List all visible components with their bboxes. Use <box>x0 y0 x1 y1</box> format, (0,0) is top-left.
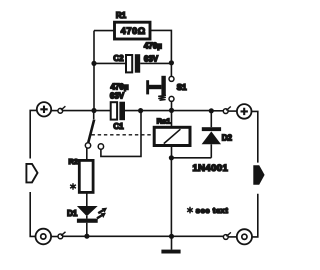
node B junction <box>169 108 174 113</box>
connector arrow right (solid) <box>253 165 264 185</box>
wire <box>30 110 37 158</box>
node ground junction <box>169 234 174 239</box>
svg-text:S1: S1 <box>177 83 187 92</box>
node C junction <box>138 108 143 113</box>
diode D2 flyback <box>210 111 212 127</box>
wire <box>86 192 88 206</box>
connector arrow left (hollow) <box>26 164 37 183</box>
wire <box>171 146 173 158</box>
wire <box>171 101 173 110</box>
asterisk near R2 <box>70 183 76 190</box>
wire <box>125 110 172 112</box>
mechanical dashed link <box>92 134 155 136</box>
node A junction <box>91 108 96 113</box>
svg-text:D1: D1 <box>67 209 78 218</box>
switch S1 pushbutton <box>169 76 174 81</box>
svg-text:D2: D2 <box>222 134 233 143</box>
wire hook contact to rail <box>101 111 141 157</box>
node D junction <box>209 108 214 113</box>
wire <box>228 110 237 112</box>
capacitor C2 <box>126 55 132 72</box>
terminal output bottom-right <box>237 229 252 244</box>
terminal output bottom-left <box>36 229 52 245</box>
node C2-left junction <box>91 61 96 66</box>
wire <box>94 30 114 32</box>
plug connector top-left <box>58 108 63 113</box>
wire <box>63 110 94 112</box>
LED arrows <box>98 210 103 213</box>
svg-text:470µ: 470µ <box>144 41 162 50</box>
svg-text:C1: C1 <box>113 122 124 131</box>
node C2-right junction <box>169 60 174 65</box>
wire <box>170 63 172 77</box>
svg-text:470µ: 470µ <box>111 82 129 91</box>
wire <box>94 62 126 64</box>
svg-text:63V: 63V <box>144 54 159 63</box>
svg-text:C2: C2 <box>113 54 124 63</box>
capacitor C1 <box>111 102 117 119</box>
svg-text:R2: R2 <box>69 157 79 166</box>
svg-text:470Ω: 470Ω <box>121 26 146 36</box>
svg-text:Re1: Re1 <box>157 117 171 126</box>
node E junction <box>169 155 174 160</box>
wire <box>172 235 224 237</box>
wire <box>211 110 223 112</box>
resistor R1 <box>115 22 151 39</box>
see text note <box>187 207 193 214</box>
resistor R2 <box>86 148 88 160</box>
svg-text:R1: R1 <box>116 11 127 20</box>
terminal + input top-left <box>37 102 51 116</box>
svg-text:see text: see text <box>196 206 229 215</box>
wire bottom rail <box>63 235 172 237</box>
wire <box>171 158 211 237</box>
wire main rail <box>94 110 111 112</box>
switch arm (relay contact) <box>93 111 95 120</box>
wire <box>30 192 35 236</box>
wire <box>51 110 58 112</box>
plug connector top-right <box>223 109 228 114</box>
plug connector bottom-right <box>223 235 228 240</box>
svg-text:1N4001: 1N4001 <box>192 163 228 174</box>
svg-text:63V: 63V <box>110 92 125 101</box>
relay Re1 <box>171 110 173 127</box>
wire <box>51 236 58 238</box>
wire <box>150 30 171 62</box>
wire <box>252 194 258 237</box>
wire <box>228 236 237 238</box>
wire <box>93 31 95 111</box>
wire <box>140 62 171 64</box>
plug connector bottom-left <box>58 234 63 239</box>
wire <box>172 110 212 112</box>
node D1 junction <box>84 234 89 239</box>
LED D1 <box>77 206 98 216</box>
wire <box>252 111 258 162</box>
terminal + output top-right <box>237 104 252 119</box>
ground <box>171 236 173 249</box>
